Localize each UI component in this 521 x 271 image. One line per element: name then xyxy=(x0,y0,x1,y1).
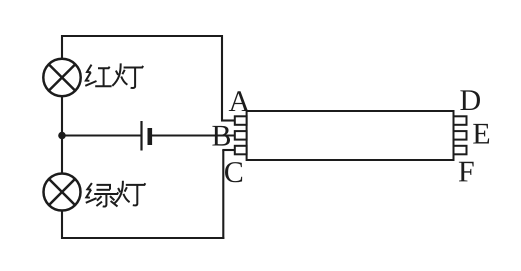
灯 fire radical xyxy=(118,188,120,192)
junction node dot xyxy=(58,132,66,140)
红 gong part xyxy=(98,67,110,69)
terminal tooth E (right middle) xyxy=(454,131,467,140)
灯 ding part xyxy=(124,66,144,68)
battery cell short plate (negative) xyxy=(148,128,153,145)
component body rectangle (tube) xyxy=(247,111,454,160)
wire left side lower (green lamp to bottom) xyxy=(61,210,63,239)
node B label xyxy=(212,126,230,146)
terminal tooth C (left bottom) xyxy=(235,146,247,155)
node D label xyxy=(460,90,480,110)
wire left side middle (red lamp to green lamp) xyxy=(61,96,63,174)
wire middle branch left (junction to battery) xyxy=(62,134,141,136)
绿 silk radical xyxy=(87,183,92,190)
wire bottom edge of loop xyxy=(61,237,224,239)
terminal tooth F (right bottom) xyxy=(454,146,467,155)
node F label xyxy=(459,162,474,182)
wire middle branch right (battery to terminal B tooth) xyxy=(151,134,235,136)
绿 lu bottom (water) xyxy=(103,194,107,207)
terminal tooth B (left middle) xyxy=(235,131,247,140)
node C label xyxy=(225,162,242,182)
label 红灯 (red lamp) drawn as strokes xyxy=(85,63,143,88)
node A label xyxy=(229,91,250,111)
lamp L2 green (circle with X) xyxy=(44,174,81,211)
terminal tooth A (left top) xyxy=(235,116,247,125)
wire jog to terminal A tooth xyxy=(221,119,235,121)
红 silk radical xyxy=(87,65,92,73)
battery cell long plate (positive) xyxy=(140,121,142,151)
wire right side lower (bottom to node C jog) xyxy=(222,150,224,239)
wire left side upper (to red lamp) xyxy=(61,35,63,59)
wire top edge of loop xyxy=(61,35,222,37)
lamp L1 red (circle with X) xyxy=(43,59,80,96)
灯 fire radical xyxy=(116,71,118,75)
terminal tooth D (right top) xyxy=(454,116,467,125)
label 绿灯 (green lamp) drawn as strokes xyxy=(86,181,146,207)
wire jog to terminal C tooth xyxy=(222,149,235,151)
绿 lu top (snout) xyxy=(97,185,111,190)
wire right side upper (top to node A jog) xyxy=(221,35,223,121)
灯 ding part xyxy=(126,183,146,185)
node E label xyxy=(473,124,489,144)
